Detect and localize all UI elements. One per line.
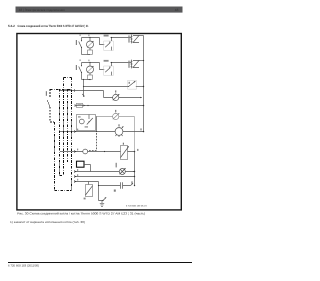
wire: vertical drop from row B — [83, 80, 85, 96]
label solenoid B — [128, 61, 129, 68]
plug arrow to bus — [131, 183, 133, 185]
valve circle Y1 (row A) — [87, 38, 94, 51]
gas valve circle 2 (gray wire) — [113, 113, 120, 120]
valve block unit box — [77, 115, 96, 131]
relay contact K3 — [128, 81, 145, 90]
label row A switch — [76, 40, 77, 45]
wire: y86.5 to contact K3 — [84, 86, 129, 88]
wire: row A bottom — [82, 54, 91, 56]
enclosure bottom small U — [60, 175, 64, 177]
capacitor C1 — [121, 182, 123, 189]
main bus right (upper) — [143, 36, 145, 132]
svg-text:6 720 608 183-05.1O: 6 720 608 183-05.1O — [126, 205, 147, 208]
external sensor circle — [83, 149, 88, 154]
schematic frame — [17, 34, 181, 210]
varistor N-box — [86, 182, 93, 197]
wire: y176.5 — [75, 176, 135, 178]
wire: y105.5 24V line — [75, 105, 144, 107]
svg-text:6 720 608 183 (2011/05): 6 720 608 183 (2011/05) — [8, 264, 39, 268]
header bar — [16, 7, 183, 13]
enclosure bottom edge — [55, 190, 72, 192]
wire: y97.5 with gas valve — [104, 97, 142, 99]
enclosure vertical x63 — [63, 78, 65, 176]
main bus right (lower) — [134, 152, 136, 186]
relay contact K1 (row A) — [100, 37, 114, 51]
lamp H1 — [119, 168, 125, 174]
external switch blade — [47, 100, 50, 107]
plug arrow on y105.5 — [83, 105, 85, 107]
motor M circle on y131.5 — [115, 126, 123, 137]
label solenoid A — [128, 35, 129, 42]
terminal tick y105.5 — [74, 104, 76, 107]
terminal number marks row B — [80, 59, 81, 61]
label contact K3 — [129, 82, 130, 84]
label lamp — [116, 163, 117, 168]
terminal numbers — [77, 129, 78, 131]
enclosure vertical x71 — [71, 78, 73, 191]
enclosure vertical x67 — [67, 89, 69, 162]
switch S1 (row A left) — [79, 37, 91, 55]
svg-text:Рис. 30 Схема соединений кот: Рис. 30 Схема соединений котла / котла T… — [17, 211, 145, 215]
svg-text:5.6.2: 5.6.2 — [8, 24, 15, 28]
label valve 3 — [115, 90, 116, 92]
svg-text:48: 48 — [175, 8, 179, 12]
box below valve (row A) — [88, 50, 93, 54]
wire: row B bottom — [82, 79, 91, 81]
relay contact K2 (row B) — [100, 62, 114, 76]
node y86.5 — [83, 86, 84, 87]
external boundary y89 — [50, 89, 72, 91]
terminal tick on y90.5 — [74, 89, 76, 92]
dashed control-unit enclosure — [47, 78, 71, 191]
label valve 2 — [115, 110, 116, 112]
svg-text:Схема соединений котла Therm 5: Схема соединений котла Therm 5000 S WTD … — [18, 24, 89, 28]
svg-text:1) зависит от варианта испол: 1) зависит от варианта исполнения котла … — [10, 220, 85, 224]
wire: row A top — [82, 37, 132, 39]
label relay A — [104, 35, 109, 37]
bold connector block — [77, 161, 85, 167]
PTC resistor box on y151.5 — [121, 146, 129, 160]
label relay B — [104, 60, 109, 62]
label box 24V — [77, 103, 83, 107]
wire: y171.5 lamp line — [75, 171, 135, 173]
solenoid Z-symbol (row A) — [131, 35, 144, 44]
external switch branch dashed — [49, 89, 51, 98]
node: row B bottom junctions — [83, 79, 84, 80]
plug arrow before ground — [103, 197, 106, 200]
label ext switch — [46, 91, 47, 96]
dashed drop x96.5 to sensor — [88, 133, 97, 150]
switch S2 (row B left) — [79, 62, 91, 80]
box below valve (row B) — [88, 75, 93, 79]
label G — [114, 190, 116, 192]
vertical link x96.5 — [96, 117, 98, 132]
terminal number marks row A — [80, 34, 81, 36]
wire: row B top — [82, 62, 132, 64]
valve circle Y2 (row B) — [87, 63, 94, 76]
wire: from dashed box y90.5 stepping down to valve — [60, 91, 104, 98]
wire: y151.5 — [60, 151, 135, 153]
wire: gray y116.5 — [96, 117, 135, 152]
label bus 4 — [140, 128, 141, 130]
label 4 at bus y151 — [137, 149, 138, 151]
enclosure vertical x54 — [54, 122, 56, 191]
enclosure vertical x59 — [59, 89, 61, 176]
label 2 at cap plug — [131, 181, 132, 183]
wire: y181.5 to ground — [75, 182, 103, 201]
plug mark at end of drop — [82, 94, 84, 96]
wire: capacitor line y185.5 — [99, 185, 131, 187]
enclosure top box edge — [64, 77, 72, 79]
label ptc — [123, 143, 124, 145]
wire: y131.5 main — [60, 131, 144, 133]
label motor 5 — [118, 124, 119, 126]
label row B switch — [76, 65, 77, 70]
ground symbol — [100, 201, 104, 207]
solenoid Z-symbol (row B) — [131, 60, 145, 69]
svg-text:48 | Электрические подключения: 48 | Электрические подключения — [19, 8, 65, 12]
bottom rule — [8, 262, 192, 263]
tiny labels — [46, 35, 142, 200]
gas valve circle with arrow (label 3) — [113, 94, 120, 101]
